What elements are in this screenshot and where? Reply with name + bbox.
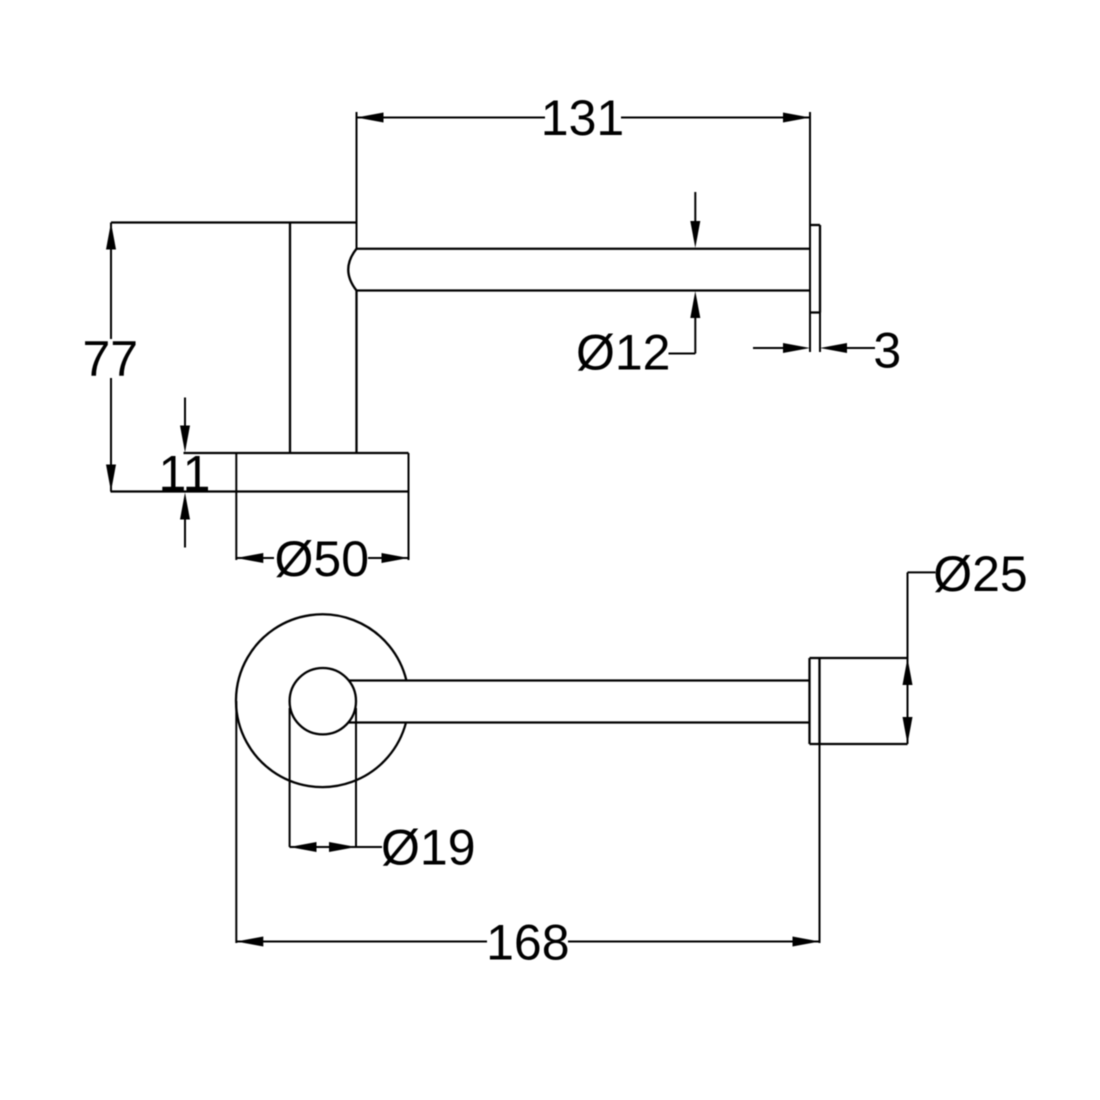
svg-text:11: 11: [159, 446, 211, 502]
svg-text:Ø12: Ø12: [576, 325, 671, 381]
svg-text:Ø25: Ø25: [933, 546, 1028, 602]
svg-text:131: 131: [541, 90, 624, 146]
svg-text:Ø50: Ø50: [275, 531, 370, 587]
svg-text:3: 3: [873, 322, 901, 378]
svg-text:168: 168: [486, 915, 569, 971]
svg-text:Ø19: Ø19: [381, 820, 476, 876]
svg-text:77: 77: [82, 331, 138, 387]
